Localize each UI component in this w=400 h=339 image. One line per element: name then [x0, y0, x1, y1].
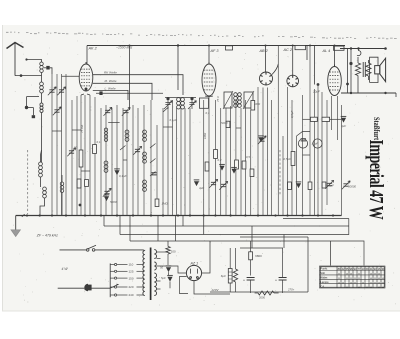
net chassis ground bus [16, 215, 342, 217]
wire [117, 294, 128, 296]
svg-text:o: o [342, 280, 344, 284]
wire [347, 49, 349, 85]
capacitor C32 paper [228, 269, 232, 284]
terminal [384, 47, 387, 50]
wire [61, 175, 63, 182]
loudspeaker frame lower [370, 73, 378, 82]
trimmer C10 [135, 149, 140, 151]
junction [286, 214, 288, 216]
mechanical gang link [27, 150, 29, 214]
wire [167, 241, 169, 247]
svg-text:5000: 5000 [221, 121, 228, 125]
wire [176, 108, 178, 216]
resistor R20 [200, 98, 209, 108]
wire [41, 73, 43, 83]
switch S1 contact [150, 159, 156, 164]
junction [317, 214, 319, 216]
tube V5 AL4 [328, 65, 342, 96]
wire [257, 87, 259, 216]
wire [87, 94, 90, 95]
wire [41, 93, 43, 103]
wire [105, 105, 107, 216]
wire [162, 108, 164, 216]
svg-text:50000: 50000 [348, 185, 356, 189]
wire jog [108, 122, 119, 124]
output transformer winding [366, 63, 371, 76]
capacitor C29 [301, 139, 306, 141]
resistor R1 [79, 150, 83, 167]
junction [85, 88, 88, 91]
wire tap [157, 288, 161, 290]
coil L6 oscillator [60, 182, 64, 193]
svg-text:4µF: 4µF [199, 186, 204, 190]
selector tap [110, 264, 114, 266]
wire [251, 226, 253, 248]
junction [274, 214, 276, 216]
selector tap [110, 286, 114, 288]
wire [334, 46, 336, 67]
resistor R9 [250, 169, 254, 177]
net mains line upper [60, 249, 87, 251]
wire [156, 125, 158, 199]
resistor R10 [291, 152, 295, 166]
svg-text:+: + [275, 278, 277, 282]
switch S2 contact [163, 107, 169, 112]
svg-text:0,5: 0,5 [246, 155, 250, 159]
coil L1 [40, 62, 44, 73]
wire [274, 292, 279, 294]
wire [157, 216, 159, 242]
svg-text:2MΩ: 2MΩ [253, 102, 261, 106]
wire [277, 46, 279, 216]
mains plug [84, 284, 88, 291]
coil L2 [40, 82, 44, 93]
wire [209, 95, 213, 98]
switch S2 contact [120, 146, 126, 151]
wire [271, 100, 273, 216]
wire [26, 97, 28, 107]
tube V3 AB2 [260, 72, 273, 85]
wire [137, 270, 144, 272]
capacitor C19 [226, 121, 230, 127]
transformer T3 secondary 2 [154, 262, 156, 270]
wire [41, 113, 43, 163]
svg-text:M. Welle: M. Welle [105, 79, 117, 83]
trimmer C7 [69, 151, 74, 153]
svg-text:ZF ~ 479 kHz: ZF ~ 479 kHz [36, 233, 58, 237]
grid cap wire [272, 64, 278, 75]
net RF rail [93, 75, 183, 95]
svg-text:6800: 6800 [255, 254, 262, 258]
tap contact [115, 263, 117, 265]
wire [240, 247, 283, 249]
loudspeaker frame [370, 57, 378, 82]
wire [50, 68, 52, 74]
wire [262, 88, 264, 216]
trimmer C11 [104, 191, 109, 193]
wire [368, 60, 370, 63]
svg-text:20µF: 20µF [312, 89, 320, 93]
wire [157, 251, 169, 253]
wire [229, 248, 231, 269]
svg-text:5000: 5000 [110, 200, 117, 204]
svg-text:o: o [370, 285, 372, 289]
svg-text:o: o [338, 280, 340, 284]
junction [317, 83, 320, 86]
wire [208, 97, 210, 216]
junction [79, 204, 82, 207]
wire jog [81, 170, 90, 172]
wire [296, 136, 298, 216]
antenna [7, 43, 24, 49]
wire [94, 97, 96, 216]
trimmer C4 [49, 90, 54, 92]
capacitor C22 [194, 181, 199, 186]
switch S1 contact [150, 172, 156, 177]
antenna terminal [20, 74, 23, 77]
wire [265, 46, 267, 73]
capacitor C35 [99, 91, 102, 95]
transformer T3 primary [143, 251, 145, 296]
svg-text:AL 4: AL 4 [322, 49, 331, 53]
wire [126, 110, 128, 216]
wire [27, 96, 40, 98]
svg-text:AK 2: AK 2 [88, 47, 98, 51]
wire [41, 150, 42, 155]
resistor R18 6800 [249, 252, 253, 260]
switch S3 mains [86, 245, 96, 251]
capacitor C34 electrolytic [279, 278, 287, 281]
wire [283, 235, 285, 249]
resistor R7 [235, 160, 239, 169]
net heater [210, 291, 308, 293]
coil L8 [104, 161, 108, 172]
net output bottom [341, 92, 396, 94]
wire [347, 84, 349, 93]
svg-text:5µF: 5µF [161, 276, 166, 280]
svg-text:0,1µF: 0,1µF [119, 174, 127, 178]
antenna lead lower [15, 75, 42, 77]
capacitor C25 [258, 137, 263, 142]
wire [129, 216, 131, 242]
wire [103, 216, 105, 227]
svg-text:o: o [370, 272, 372, 276]
resistor R2 [93, 145, 97, 154]
wire [282, 248, 284, 278]
wire [208, 46, 210, 65]
transformer T3 core [150, 248, 152, 301]
coil L7 [104, 128, 107, 141]
svg-text:Staßfurt: Staßfurt [372, 117, 381, 141]
wire [182, 216, 184, 227]
svg-text:Imperial 47 W: Imperial 47 W [365, 140, 388, 221]
svg-text:0,5µF: 0,5µF [284, 157, 292, 161]
wire [144, 249, 146, 252]
wire [189, 108, 191, 216]
transformer T3 secondary HV [154, 273, 156, 296]
wire [32, 108, 34, 116]
svg-text:o: o [382, 276, 384, 280]
coil L12 [143, 180, 147, 191]
svg-text:110: 110 [129, 263, 134, 267]
wire [330, 118, 342, 120]
capacitor C17 15000 [310, 117, 317, 121]
junction [244, 214, 246, 216]
wire [235, 248, 237, 269]
capacitor C21 [104, 196, 109, 201]
wire [292, 46, 294, 76]
junction [150, 214, 152, 216]
loudspeaker [375, 58, 386, 81]
wire [244, 100, 246, 216]
resistor R3 [77, 179, 81, 188]
svg-text:o: o [378, 285, 380, 289]
selector tap [110, 294, 114, 296]
wire jog [303, 154, 311, 156]
wire [255, 292, 258, 294]
svg-text:o: o [358, 285, 360, 289]
coil L5 [43, 187, 47, 198]
net LW rail [93, 90, 128, 100]
net screen line [96, 92, 163, 94]
wire [314, 89, 316, 216]
wire [137, 277, 144, 279]
wire [137, 108, 139, 216]
fuse loop [357, 49, 361, 56]
wire [250, 260, 252, 276]
wire [250, 241, 252, 252]
wire [306, 46, 308, 60]
wire [203, 216, 205, 235]
capacitor C1 [46, 66, 49, 70]
svg-text:Wider.: Wider. [320, 276, 328, 280]
svg-text:Volt: Volt [320, 271, 325, 275]
switch S1 contact [150, 144, 156, 149]
net MW rail [93, 83, 152, 100]
trimmer C12 [211, 182, 216, 184]
wire [235, 282, 237, 292]
wire [309, 46, 311, 216]
wire [169, 282, 171, 289]
trimmer C5 [54, 110, 59, 112]
wire [214, 100, 216, 216]
tube V2 AF3 [202, 62, 216, 96]
svg-text:2000: 2000 [259, 295, 265, 299]
svg-text:o: o [378, 276, 380, 280]
wire jog [52, 130, 62, 132]
selector wiper [110, 284, 118, 288]
svg-text:0,1µF: 0,1µF [327, 183, 335, 187]
wire [167, 254, 169, 265]
wire [194, 281, 230, 294]
antenna lead [14, 43, 16, 76]
wire [350, 49, 352, 93]
wire [143, 105, 145, 216]
output transformer core [363, 62, 365, 77]
junction [309, 45, 311, 47]
svg-text:o: o [346, 272, 348, 276]
capacitor C28 [151, 173, 156, 175]
svg-text:270+: 270+ [287, 288, 295, 292]
junction [357, 47, 359, 49]
junction [301, 214, 303, 216]
wire [95, 249, 144, 251]
svg-text:AC 2: AC 2 [283, 48, 293, 52]
wire [282, 280, 284, 293]
antenna tap upper [26, 60, 42, 63]
svg-text:o: o [382, 285, 384, 289]
junction [265, 45, 267, 47]
trimmer C15 [327, 183, 332, 185]
valve data table [320, 266, 386, 288]
svg-text:Lampe: Lampe [320, 280, 329, 284]
wire [76, 96, 78, 216]
svg-text:CA: CA [320, 284, 324, 288]
bus tick [22, 214, 25, 217]
coil L10 [143, 130, 147, 141]
wire [40, 177, 42, 187]
svg-text:o: o [370, 276, 372, 280]
wire [27, 107, 34, 109]
svg-text:Punkt: Punkt [320, 267, 327, 271]
rectifier tube V6 AZ1 [186, 265, 201, 280]
selector tap [110, 270, 114, 272]
wire [331, 96, 333, 130]
voltage selector bar [109, 263, 111, 297]
junction [162, 214, 164, 216]
svg-text:o: o [378, 280, 380, 284]
svg-text:1MΩ: 1MΩ [203, 132, 207, 139]
band label box [334, 46, 345, 50]
capacitor C31 [167, 277, 172, 282]
capacitor C18 15000 [322, 117, 330, 121]
svg-text:50: 50 [74, 146, 78, 150]
junction [214, 214, 216, 216]
wire [175, 216, 177, 242]
IF transformer T2 [223, 91, 254, 109]
trimmer C9 [123, 110, 128, 112]
wire [150, 100, 152, 216]
wire jog [236, 127, 241, 129]
wire [368, 76, 370, 80]
wire [357, 76, 359, 93]
wire [117, 264, 128, 266]
wire [40, 155, 42, 162]
junction [332, 214, 334, 216]
wire [84, 95, 86, 216]
junction [177, 44, 179, 46]
wire tick [395, 93, 397, 97]
wire [92, 287, 111, 289]
wire [157, 266, 187, 273]
resistor R8 [242, 161, 246, 169]
transformer T3 secondary 1 [154, 250, 156, 259]
svg-text:o: o [350, 280, 352, 284]
wire [81, 94, 84, 95]
wire [167, 108, 169, 216]
wire [129, 46, 131, 111]
net B+ rail b [120, 219, 349, 235]
tube V4 AC2 [287, 75, 299, 87]
svg-text:+: + [243, 278, 245, 282]
wire [297, 132, 311, 137]
wire [137, 294, 144, 296]
wire [303, 118, 311, 120]
wire [172, 100, 174, 216]
svg-text:10µF: 10µF [312, 142, 319, 146]
potentiometer P2 [313, 139, 322, 148]
ground arrow [11, 230, 21, 237]
capacitor C33 electrolytic [247, 278, 255, 281]
svg-text:220: 220 [129, 285, 134, 289]
wire [80, 95, 82, 216]
capacitor C30 [166, 267, 171, 272]
wire [51, 74, 53, 216]
capacitor C26 [219, 166, 224, 171]
wire [291, 100, 293, 216]
tap contact [115, 286, 117, 288]
junction [230, 214, 232, 216]
wire [65, 74, 67, 216]
wire [71, 100, 73, 216]
wire [203, 100, 205, 216]
svg-text:4 W: 4 W [62, 267, 69, 271]
resistor R6 [205, 162, 209, 171]
wire [177, 46, 179, 91]
svg-text:0,2: 0,2 [218, 158, 222, 162]
tap contact [115, 294, 117, 296]
wire [267, 88, 269, 216]
capacitor C24 [341, 118, 346, 123]
wire gang to tube [62, 75, 80, 77]
svg-text:150: 150 [129, 276, 134, 280]
wire tap [157, 258, 161, 260]
wire [119, 216, 121, 235]
junction [26, 214, 28, 216]
terminal [384, 92, 386, 94]
junction [177, 214, 179, 216]
wire [282, 136, 284, 216]
wire [202, 241, 210, 273]
tap contact [115, 270, 117, 272]
junction [349, 62, 352, 65]
junction [129, 45, 131, 47]
junction [189, 214, 191, 216]
trimmer C6 [59, 90, 64, 92]
svg-text:AB 2: AB 2 [259, 49, 269, 53]
resistor field coil [355, 63, 360, 76]
svg-text:0,1: 0,1 [97, 140, 101, 144]
band label box [295, 46, 306, 50]
capacitor C23 [296, 183, 301, 188]
resistor R4 [85, 180, 89, 187]
wire [86, 46, 88, 65]
wire [122, 108, 124, 216]
resistor R11 [288, 182, 292, 190]
resistor R19 [258, 291, 274, 295]
resistor R13 [322, 182, 326, 188]
wire jog [123, 159, 127, 161]
svg-text:240: 240 [129, 293, 134, 297]
wire [337, 96, 339, 140]
wire [357, 57, 359, 63]
terminal [25, 58, 27, 60]
trimmer C14 [259, 139, 264, 141]
wire [230, 106, 232, 216]
junction [346, 83, 349, 86]
wire [341, 105, 343, 216]
wire [137, 286, 144, 288]
